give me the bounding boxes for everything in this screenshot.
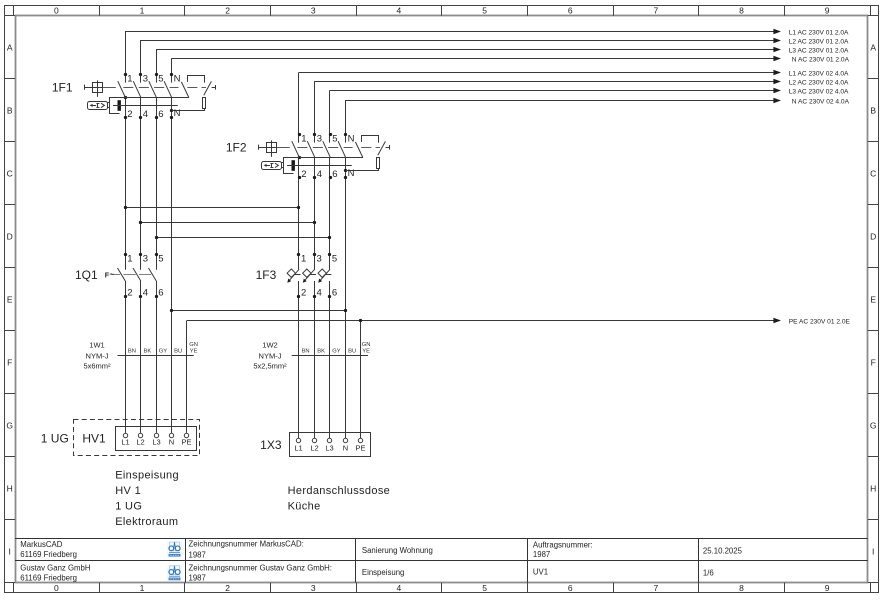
svg-text:6: 6: [158, 287, 163, 298]
svg-text:L2 AC 230V 01 2.0A: L2 AC 230V 01 2.0A: [789, 39, 849, 46]
svg-text:N: N: [343, 443, 348, 452]
svg-text:Einspeisung: Einspeisung: [362, 568, 404, 577]
svg-text:N: N: [348, 134, 355, 145]
svg-text:N: N: [174, 74, 181, 85]
svg-text:8: 8: [739, 583, 744, 593]
svg-text:9: 9: [825, 5, 830, 15]
svg-text:1: 1: [127, 254, 132, 265]
svg-text:BU: BU: [348, 349, 356, 355]
svg-text:1 UG: 1 UG: [115, 500, 142, 512]
svg-text:PE: PE: [181, 438, 191, 447]
svg-text:3: 3: [311, 583, 316, 593]
svg-text:GY: GY: [332, 349, 341, 355]
svg-text:D: D: [870, 231, 876, 241]
svg-text:GY: GY: [159, 349, 168, 355]
svg-text:Sanierung Wohnung: Sanierung Wohnung: [362, 546, 433, 555]
svg-text:F: F: [7, 357, 12, 367]
svg-text:1987: 1987: [533, 550, 550, 559]
svg-text:BU: BU: [174, 349, 182, 355]
svg-text:6: 6: [332, 287, 337, 298]
svg-text:Küche: Küche: [288, 500, 321, 512]
svg-text:1: 1: [301, 254, 306, 265]
svg-text:4: 4: [397, 5, 402, 15]
svg-text:L3: L3: [325, 443, 333, 452]
svg-text:0: 0: [54, 583, 59, 593]
svg-text:L2: L2: [136, 438, 144, 447]
svg-text:Zeichnungsnummer MarkusCAD:: Zeichnungsnummer MarkusCAD:: [189, 540, 304, 549]
svg-text:Gustav Ganz GmbH: Gustav Ganz GmbH: [20, 564, 90, 573]
svg-text:5: 5: [482, 5, 487, 15]
svg-text:N: N: [169, 438, 174, 447]
svg-text:B: B: [870, 105, 876, 115]
svg-text:BN: BN: [302, 349, 310, 355]
svg-text:L2 AC 230V 02 4.0A: L2 AC 230V 02 4.0A: [789, 80, 849, 87]
svg-text:8: 8: [739, 5, 744, 15]
svg-text:PE AC 230V 01 2.0E: PE AC 230V 01 2.0E: [789, 319, 851, 326]
svg-text:3: 3: [317, 134, 322, 145]
svg-text:1987: 1987: [189, 550, 206, 559]
svg-text:Auftragsnummer:: Auftragsnummer:: [533, 540, 593, 549]
svg-text:2: 2: [127, 287, 132, 298]
svg-text:5x2,5mm²: 5x2,5mm²: [253, 362, 287, 371]
svg-text:A: A: [870, 42, 876, 52]
svg-text:3: 3: [143, 254, 148, 265]
svg-text:1: 1: [301, 134, 306, 145]
svg-text:N AC 230V 02 4.0A: N AC 230V 02 4.0A: [792, 99, 850, 106]
svg-text:5: 5: [332, 254, 337, 265]
svg-text:2: 2: [127, 109, 132, 120]
svg-text:L1 AC 230V 02 4.0A: L1 AC 230V 02 4.0A: [789, 71, 849, 78]
svg-text:1F3: 1F3: [256, 268, 277, 282]
svg-text:YE: YE: [362, 349, 370, 355]
svg-text:3: 3: [317, 254, 322, 265]
svg-text:L3: L3: [152, 438, 160, 447]
svg-text:BN: BN: [128, 349, 136, 355]
svg-text:HV 1: HV 1: [115, 485, 141, 497]
svg-text:GN: GN: [189, 342, 198, 348]
svg-text:1: 1: [140, 583, 145, 593]
svg-text:N: N: [348, 168, 355, 179]
svg-text:Einspeisung: Einspeisung: [115, 469, 179, 481]
svg-text:0: 0: [54, 5, 59, 15]
svg-text:D: D: [7, 231, 13, 241]
svg-text:6: 6: [158, 109, 163, 120]
svg-text:F: F: [871, 357, 876, 367]
svg-text:61169 Friedberg: 61169 Friedberg: [20, 550, 77, 559]
svg-text:1: 1: [127, 74, 132, 85]
svg-text:B: B: [7, 105, 13, 115]
svg-text:5x6mm²: 5x6mm²: [83, 362, 111, 371]
svg-text:G: G: [870, 420, 877, 430]
svg-text:1W2: 1W2: [262, 340, 277, 349]
svg-text:L1: L1: [121, 438, 129, 447]
svg-text:5: 5: [158, 74, 163, 85]
svg-text:1F2: 1F2: [226, 141, 247, 155]
svg-text:3: 3: [143, 74, 148, 85]
svg-text:2: 2: [225, 5, 230, 15]
svg-text:4: 4: [143, 287, 148, 298]
svg-text:1987: 1987: [189, 573, 206, 582]
svg-text:1Q1: 1Q1: [75, 268, 98, 282]
svg-text:L1: L1: [294, 443, 302, 452]
svg-text:7: 7: [654, 5, 659, 15]
svg-text:6: 6: [332, 169, 337, 180]
svg-text:4: 4: [143, 109, 148, 120]
svg-text:H: H: [7, 483, 13, 493]
svg-text:A: A: [7, 42, 13, 52]
svg-text:L1 AC 230V 01 2.0A: L1 AC 230V 01 2.0A: [789, 30, 849, 37]
svg-text:BK: BK: [144, 349, 152, 355]
svg-text:L3 AC 230V 01 2.0A: L3 AC 230V 01 2.0A: [789, 48, 849, 55]
svg-text:I: I: [9, 546, 11, 556]
svg-text:3: 3: [311, 5, 316, 15]
svg-text:1: 1: [140, 5, 145, 15]
svg-text:2: 2: [301, 169, 306, 180]
svg-text:6: 6: [568, 5, 573, 15]
svg-text:C: C: [870, 168, 876, 178]
svg-text:5: 5: [158, 254, 163, 265]
svg-text:N: N: [174, 108, 181, 119]
svg-text:UV1: UV1: [533, 567, 548, 576]
svg-text:NYM-J: NYM-J: [86, 352, 109, 361]
svg-text:1F1: 1F1: [52, 81, 73, 95]
svg-text:NYM-J: NYM-J: [259, 352, 282, 361]
svg-text:Herdanschlussdose: Herdanschlussdose: [288, 485, 391, 497]
svg-text:C: C: [7, 168, 13, 178]
svg-text:61169 Friedberg: 61169 Friedberg: [20, 573, 77, 582]
svg-text:6: 6: [568, 583, 573, 593]
svg-text:1X3: 1X3: [260, 438, 282, 452]
svg-text:HV1: HV1: [82, 431, 106, 445]
svg-text:N AC 230V 01 2.0A: N AC 230V 01 2.0A: [792, 57, 850, 64]
svg-text:4: 4: [317, 169, 322, 180]
svg-text:YE: YE: [190, 349, 198, 355]
svg-text:Zeichnungsnummer Gustav Ganz G: Zeichnungsnummer Gustav Ganz GmbH:: [189, 563, 332, 572]
svg-text:2: 2: [225, 583, 230, 593]
svg-text:H: H: [870, 483, 876, 493]
svg-text:L2: L2: [310, 443, 318, 452]
svg-text:I: I: [872, 546, 874, 556]
svg-text:5: 5: [332, 134, 337, 145]
svg-text:25.10.2025: 25.10.2025: [703, 547, 743, 556]
svg-text:BK: BK: [317, 349, 325, 355]
svg-text:E: E: [870, 294, 876, 304]
svg-text:2: 2: [301, 287, 306, 298]
svg-text:Elektroraum: Elektroraum: [115, 516, 178, 528]
svg-text:1 UG: 1 UG: [41, 432, 69, 446]
svg-text:~: ~: [109, 269, 114, 279]
svg-text:1/6: 1/6: [703, 569, 714, 578]
svg-text:MarkusCAD: MarkusCAD: [20, 540, 62, 549]
svg-text:4: 4: [317, 287, 322, 298]
svg-text:4: 4: [397, 583, 402, 593]
svg-text:L3 AC 230V 02 4.0A: L3 AC 230V 02 4.0A: [789, 89, 849, 96]
svg-text:PE: PE: [355, 443, 365, 452]
svg-text:G: G: [6, 420, 13, 430]
svg-text:GN: GN: [362, 342, 371, 348]
svg-text:7: 7: [654, 583, 659, 593]
svg-text:E: E: [7, 294, 13, 304]
svg-text:1W1: 1W1: [89, 340, 104, 349]
svg-text:5: 5: [482, 583, 487, 593]
svg-text:9: 9: [825, 583, 830, 593]
